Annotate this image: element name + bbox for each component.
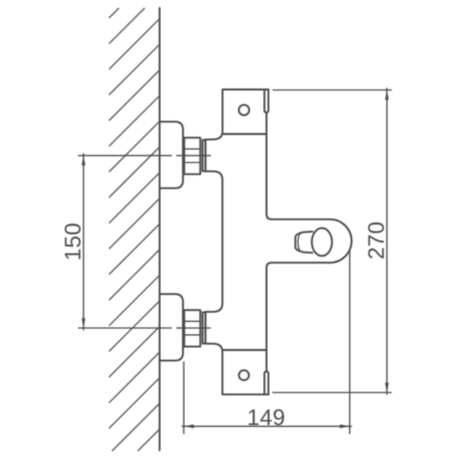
bottom mounting hole <box>239 370 249 380</box>
diverter knob tip arc <box>298 233 300 251</box>
dim 270 text <box>368 222 384 258</box>
dim 149 right extension line <box>349 251 351 435</box>
top bracket slot <box>264 90 268 113</box>
wall hatching <box>109 8 160 451</box>
diverter knob cap <box>312 228 332 256</box>
dim 270 top arrow <box>385 90 389 100</box>
faucet body outline <box>206 90 265 395</box>
dim 149 right arrow <box>340 424 350 428</box>
body right edge upper <box>267 113 352 371</box>
dim 270 top extension line <box>273 89 392 91</box>
dim 149 text <box>249 409 284 425</box>
bottom bracket slot <box>264 371 268 394</box>
dim 149 left extension line <box>183 362 185 435</box>
top bracket top edge cap <box>264 89 268 91</box>
bottom inlet connection (escutcheon, nut, ring, centerline) <box>78 294 211 361</box>
bottom bracket bottom edge cap <box>264 393 268 395</box>
top bracket bottom edge <box>223 133 267 135</box>
dim 270 bottom extension line <box>272 392 392 394</box>
diverter knob stem <box>295 232 312 253</box>
dim 150 bottom arrow <box>82 318 86 328</box>
wall face line <box>159 8 161 450</box>
bottom bracket top edge <box>222 349 266 351</box>
dim 149 line <box>182 425 352 427</box>
dim 150 top arrow <box>82 156 86 166</box>
top inlet connection (escutcheon, nut, ring, centerline) <box>78 122 211 189</box>
dim 150 text <box>65 224 81 259</box>
dim 149 left arrow <box>184 424 194 428</box>
top mounting hole <box>239 105 249 115</box>
dim 270 line <box>386 88 388 395</box>
dim 270 bottom arrow <box>385 383 389 393</box>
dim 150 line <box>83 153 85 330</box>
